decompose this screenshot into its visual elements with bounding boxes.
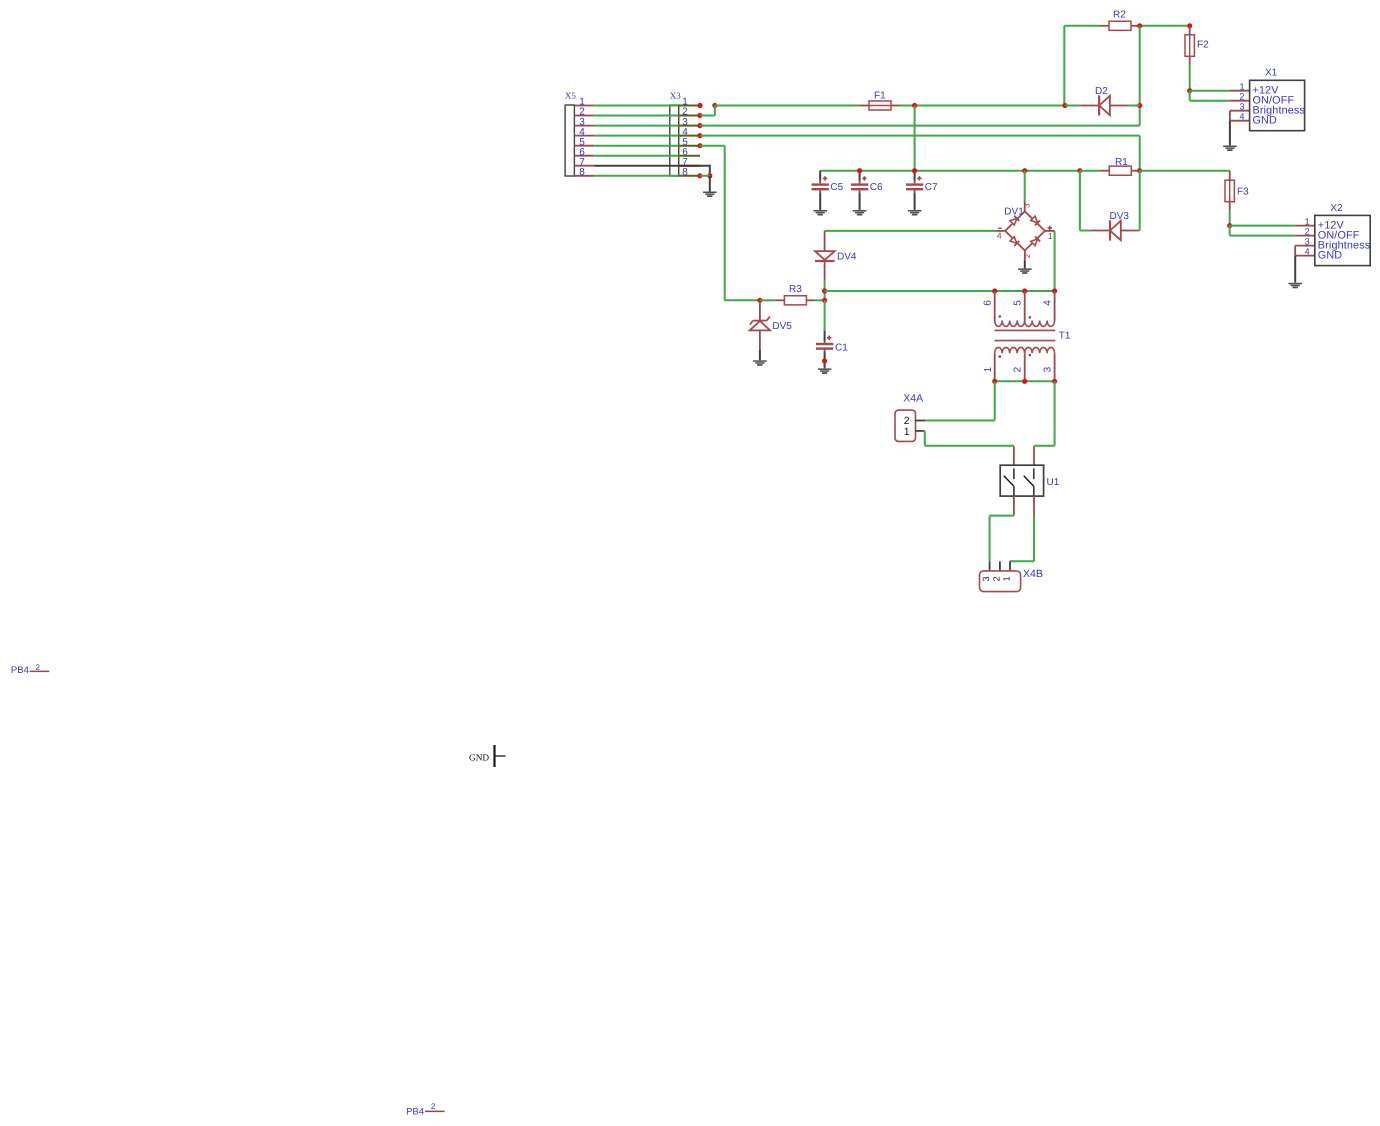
wire rail to bridge (1024, 171, 1026, 202)
svg-text:2: 2 (1013, 366, 1024, 372)
ground X3.8 (703, 192, 717, 198)
node T1 pin2 bottom (1022, 379, 1027, 384)
svg-text:4: 4 (1305, 247, 1310, 257)
X5 pin 8 stub (574, 175, 594, 177)
X4B pin 3 stub (989, 561, 991, 571)
ground X2 (1288, 283, 1302, 289)
wire T1.1 to X4A.2 (994, 381, 996, 420)
ground C7 (908, 210, 922, 216)
connector X4A body (895, 410, 916, 441)
node X3.4 (697, 133, 702, 138)
wire T1 bottom rail (995, 380, 1055, 382)
node X3.5 (697, 143, 702, 148)
svg-text:8: 8 (579, 167, 585, 178)
wire X5.4 to X3.4 (594, 135, 678, 137)
node DV4 rail (822, 288, 827, 293)
ground DV1 (1018, 268, 1032, 274)
wire R2 node down to D2 (1139, 26, 1141, 106)
svg-text:F3: F3 (1237, 187, 1249, 198)
wire X5.3 to X3.3 (594, 125, 678, 127)
svg-text:X2: X2 (1330, 203, 1343, 214)
svg-text:3: 3 (1022, 204, 1031, 208)
svg-text:C6: C6 (870, 182, 883, 193)
svg-text:2: 2 (1239, 92, 1244, 102)
wire row2 jog (700, 115, 715, 117)
node D2 right (1137, 103, 1142, 108)
X4B pin 2 stub (999, 561, 1001, 571)
svg-text:2: 2 (1023, 254, 1032, 258)
U1 pin bottom left (1013, 496, 1015, 515)
resistor R3 (784, 296, 806, 305)
svg-text:3: 3 (1042, 366, 1053, 372)
node X2 feed (1227, 223, 1232, 228)
capacitor C6 (859, 171, 861, 181)
wire T1.3 to U1 (1054, 381, 1056, 445)
ground C6 (853, 210, 867, 216)
node R1 right (1137, 168, 1142, 173)
wire X5.6 to X3.6 (594, 155, 678, 157)
X5 pin 3 stub (574, 125, 594, 127)
svg-text:R1: R1 (1115, 157, 1128, 168)
DV1 plus mark (1048, 227, 1052, 229)
X5 pin 5 stub (574, 145, 594, 147)
X3 pin 5 stub (679, 145, 701, 147)
svg-text:2: 2 (431, 1102, 436, 1111)
X3 pin 7 stub (679, 165, 701, 167)
svg-text:1: 1 (904, 426, 910, 438)
X3 pin 8 stub (679, 175, 701, 177)
ground X1 (1223, 146, 1237, 152)
svg-text:F2: F2 (1197, 40, 1209, 51)
node F2 top (1187, 23, 1192, 28)
svg-text:X4B: X4B (1023, 568, 1043, 580)
node T1 pin6 top (992, 288, 997, 293)
fuse F3 (1229, 171, 1231, 181)
capacitor C7 (914, 171, 916, 181)
svg-text:5: 5 (1012, 300, 1023, 306)
wire R2 left vertical (1064, 25, 1100, 27)
svg-text:DV5: DV5 (772, 321, 792, 332)
node F1 out (912, 103, 917, 108)
svg-text:3: 3 (1305, 237, 1310, 247)
wire capacitor rail (820, 170, 1080, 172)
resistor R2 (1109, 21, 1131, 30)
diode DV3 (1090, 230, 1110, 232)
wire X3.8 to ground (709, 176, 711, 192)
wire X5.2 to X3.2 (594, 115, 678, 117)
svg-text:X1: X1 (1265, 68, 1278, 79)
svg-text:X4A: X4A (903, 392, 923, 404)
svg-text:1: 1 (1002, 576, 1012, 581)
node row1-row2 tie (712, 103, 717, 108)
wire F1 to D2 (900, 105, 1066, 107)
node X3.8 tie (707, 173, 712, 178)
svg-text:X5: X5 (565, 90, 576, 100)
node C7 top (912, 168, 917, 173)
wire X1 pin3 to gnd (1230, 110, 1250, 112)
svg-text:PB4: PB4 (11, 665, 29, 676)
wire U1 to X4B.1 (1033, 516, 1035, 562)
svg-text:C1: C1 (835, 342, 848, 353)
X3 pin 6 stub (679, 155, 700, 157)
capacitor C5 (819, 171, 821, 181)
U1 pin top left (1013, 446, 1015, 465)
wire X1 pin2 (1189, 91, 1191, 101)
svg-text:4: 4 (1043, 300, 1054, 306)
ground C5 (813, 210, 827, 216)
svg-text:DV1: DV1 (1004, 206, 1024, 217)
wire X2 pin3 to gnd (1295, 245, 1315, 247)
wire bridge pin2 to ground (1024, 260, 1026, 268)
ground C1 (818, 368, 832, 374)
wire R1 to F3 (1140, 170, 1230, 172)
wire X5.8 to X3.8 (594, 175, 678, 177)
capacitor C1 (824, 331, 826, 341)
wire X2 pin1 (1230, 225, 1296, 227)
wire R2 to F2 top (1139, 25, 1190, 27)
svg-text:2: 2 (36, 663, 41, 672)
svg-text:6: 6 (983, 300, 994, 306)
X5 pin 4 stub (574, 135, 594, 137)
wire U1 to X4B.3 (990, 515, 1014, 517)
wire bridge pin4 to DV4 (825, 230, 997, 232)
X4A pin 1 stub (916, 430, 924, 432)
node T1 pin5 top (1022, 288, 1027, 293)
wire X5.7 to ground net (gray) (594, 165, 710, 167)
connector X4B body (980, 571, 1021, 592)
wire R3 node down (824, 300, 826, 331)
svg-text:DV4: DV4 (837, 251, 857, 262)
wire row4 to right vertical (700, 135, 1140, 137)
wire F1 node down to cap rail (914, 106, 916, 171)
node D2 left (1062, 103, 1067, 108)
svg-text:PB4: PB4 (406, 1106, 424, 1117)
bridge rectifier DV1 (1005, 211, 1045, 250)
wire F2 to X1 (1189, 65, 1191, 91)
svg-text:R2: R2 (1113, 10, 1126, 21)
diode D2 (1080, 105, 1099, 107)
node T1 pin4 top (1052, 288, 1057, 293)
node T1 pin1 bottom (992, 379, 997, 384)
node X1 feed (1187, 88, 1192, 93)
svg-text:U1: U1 (1047, 477, 1060, 488)
node X3.8 (697, 173, 702, 178)
svg-text:3: 3 (1239, 102, 1244, 112)
svg-text:4: 4 (997, 230, 1002, 240)
wire X4A.1 to U1 (924, 430, 925, 432)
X5 pin 2 stub (574, 115, 594, 117)
svg-text:F1: F1 (874, 91, 886, 102)
fuse F1 (869, 101, 891, 110)
svg-text:4: 4 (1239, 112, 1244, 122)
node X3.2 (697, 113, 702, 118)
svg-text:GND: GND (1253, 115, 1277, 127)
svg-text:C7: C7 (925, 182, 938, 193)
connector X3 body (670, 105, 679, 176)
node R3 right (822, 298, 827, 303)
U1 pin bottom right (1033, 496, 1035, 515)
node C1 bottom (822, 358, 827, 363)
wire X2 pin4 to gnd (1295, 255, 1315, 257)
node R2 out (1137, 23, 1142, 28)
connector X5 body (565, 105, 574, 176)
X4B pin 1 stub (1009, 561, 1011, 571)
wire bridge out down (1054, 231, 1056, 291)
node DV5 top (757, 298, 762, 303)
svg-text:GND: GND (469, 753, 489, 763)
ground DV5 (753, 360, 767, 366)
DV1 minus mark (998, 227, 1002, 229)
zener diode DV5 (759, 300, 761, 320)
svg-text:1: 1 (1048, 231, 1053, 241)
connector X1 body (1250, 80, 1305, 130)
wire X1 pin1 (1190, 90, 1230, 92)
X4A pin 2 stub (916, 420, 926, 422)
svg-text:R3: R3 (789, 284, 802, 295)
X3 pin 2 stub (679, 115, 701, 117)
wire X3.8 link (700, 175, 710, 177)
node R1 left (1077, 168, 1082, 173)
wire X5.1 to X3.1 (594, 105, 678, 107)
svg-text:1: 1 (983, 366, 994, 372)
resistor R1 (1109, 166, 1131, 175)
wire DV3 left vertical (1079, 171, 1081, 231)
node T1 pin3 bottom (1052, 379, 1057, 384)
svg-text:X3: X3 (670, 90, 681, 100)
wire row5 down to R3 area (700, 145, 725, 147)
svg-text:1: 1 (1239, 82, 1244, 92)
node X3.3 (697, 123, 702, 128)
svg-text:2: 2 (992, 576, 1002, 581)
svg-text:3: 3 (981, 576, 991, 581)
X3 pin 1 stub (679, 105, 701, 107)
wire X5.5 to X3.5 (594, 145, 678, 147)
svg-text:T1: T1 (1059, 330, 1071, 341)
svg-text:2: 2 (1305, 227, 1310, 237)
wire DV4 to node (824, 281, 826, 301)
wire DV3 right vertical (1138, 230, 1141, 232)
X3 pin 4 stub (679, 135, 701, 137)
svg-text:GND: GND (1318, 250, 1342, 262)
connector X2 body (1315, 215, 1370, 265)
transformer T1 (994, 291, 996, 321)
wire F3 to X2 (1229, 210, 1231, 225)
svg-text:DV3: DV3 (1110, 211, 1130, 222)
node bridge feed (1022, 168, 1027, 173)
fuse F2 (1185, 35, 1194, 57)
node X3.1 (697, 103, 702, 108)
svg-text:C5: C5 (830, 182, 843, 193)
wire row3 to right vertical (700, 125, 1140, 127)
svg-text:D2: D2 (1095, 86, 1108, 97)
svg-text:1: 1 (1305, 217, 1310, 227)
U1 pin top right (1033, 446, 1035, 465)
X5 pin 7 stub (574, 165, 594, 167)
wire row1 to F1 (715, 105, 859, 107)
X5 pin 6 stub (574, 155, 594, 157)
X5 pin 1 stub (574, 105, 594, 107)
X3 pin 3 stub (679, 125, 701, 127)
optocoupler U1 (1000, 465, 1043, 496)
wire X1 pin4 to gnd (1230, 120, 1250, 122)
diode DV4 (824, 231, 826, 251)
node C6 top (857, 168, 862, 173)
wire rail to transformer (825, 290, 1055, 292)
wire X2 pin2 (1229, 226, 1231, 236)
